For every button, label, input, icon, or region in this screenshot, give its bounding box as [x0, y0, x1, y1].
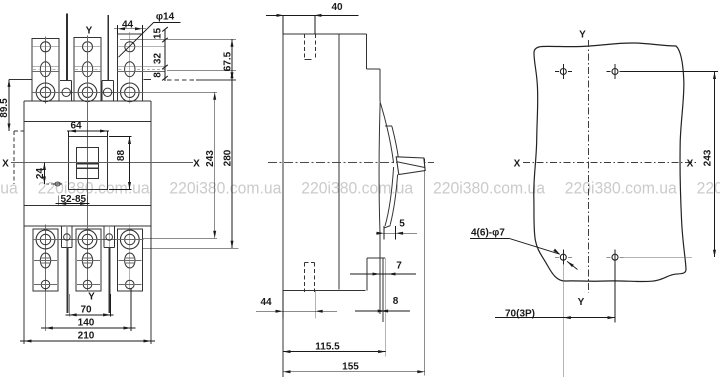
Y dash-dot axis (plate)	[588, 40, 590, 293]
top inter-pole pocket 1	[60, 80, 71, 82]
top terminal block 3	[118, 34, 143, 101]
svg-text:67.5: 67.5	[223, 51, 234, 71]
svg-text:220i380.com.ua: 220i380.com.ua	[169, 179, 281, 198]
top terminal block 2 middle slot hole	[82, 62, 92, 77]
top inter-pole pocket 1 hole	[62, 88, 70, 96]
dimension 8 (side)	[355, 310, 410, 312]
svg-text:5: 5	[399, 219, 405, 230]
dimension 88	[129, 137, 131, 190]
side view: cover face lower	[379, 101, 380, 314]
svg-text:15: 15	[153, 28, 164, 40]
dimension 44 (side)	[282, 290, 284, 318]
svg-text:4(6)-φ7: 4(6)-φ7	[471, 228, 505, 239]
side view: X dash-dot axis	[268, 162, 434, 164]
bottom-right hole extension line	[614, 264, 616, 323]
side view: bottom step horizontal	[367, 257, 385, 259]
bottom terminal block 2 main screw	[78, 230, 97, 249]
extension line from bottom-right hole	[624, 256, 693, 258]
top terminal block 3 upper hole	[125, 42, 135, 52]
bottom terminal block 3 middle slot hole	[125, 253, 135, 268]
top terminal block 2 main screw	[78, 83, 97, 102]
svg-text:220i380.com.ua: 220i380.com.ua	[0, 179, 18, 198]
side view: toggle lever	[396, 157, 425, 175]
bottom busbar phase 1	[67, 248, 69, 313]
svg-text:115.5: 115.5	[315, 342, 340, 353]
extension line from top-right hole	[624, 71, 719, 73]
front view: lower face line	[24, 205, 151, 207]
bottom inter-pole pocket 1 hole	[66, 227, 68, 248]
top terminal block 1 main screw	[36, 83, 55, 102]
side view: toggle lever inner line	[397, 162, 425, 168]
extension line top right (front)	[120, 38, 236, 40]
svg-text:220i380.com.ua: 220i380.com.ua	[697, 179, 720, 198]
mounting hole top-left	[560, 69, 566, 75]
svg-text:8: 8	[153, 72, 164, 78]
svg-text:220i380.com.ua: 220i380.com.ua	[565, 179, 677, 198]
top terminal block 1 upper hole	[41, 42, 51, 52]
bottom terminal block 3 centerline	[129, 225, 131, 292]
top terminal block 2	[74, 38, 101, 102]
dimension 7 (side)	[350, 273, 416, 275]
bottom terminal block 1 lower hole	[41, 280, 50, 289]
svg-text:220i380.com.ua: 220i380.com.ua	[433, 179, 545, 198]
svg-text:Y: Y	[86, 26, 93, 37]
svg-text:155: 155	[342, 362, 359, 373]
bottom-left hole extension line	[562, 264, 564, 377]
side view: top edge	[283, 33, 367, 35]
svg-text:220i380.com.ua: 220i380.com.ua	[38, 179, 150, 198]
dimension chain 15-32-8	[164, 29, 166, 81]
side view: bottom edge	[283, 289, 366, 291]
top terminal block 2 upper hole	[83, 42, 93, 52]
mounting hole top-right	[612, 69, 618, 75]
svg-text:64: 64	[70, 121, 82, 132]
top terminal block 2 centerline	[87, 36, 89, 104]
side view: escutcheon bottom edge	[384, 226, 391, 229]
dimension 70 (front)	[68, 294, 70, 317]
svg-text:44: 44	[260, 297, 272, 308]
bottom terminal block 3 main screw	[120, 230, 139, 249]
svg-text:X: X	[2, 159, 9, 170]
side view: escutcheon outer edge	[385, 125, 392, 127]
dimension 89.5	[8, 79, 10, 131]
mounting plate outline	[534, 43, 686, 282]
svg-text:X: X	[687, 158, 694, 169]
dimension 44 (front top)	[117, 25, 119, 34]
dimension 280 (front)	[167, 70, 236, 72]
top right body stub line	[144, 78, 152, 80]
bottom terminal block 1	[33, 229, 58, 291]
dimension 140	[44, 288, 46, 331]
bottom terminal block 1 centerline	[45, 225, 47, 292]
side view: escutcheon bulge	[380, 103, 393, 163]
dimension 155 (side)	[424, 158, 426, 375]
svg-text:243: 243	[205, 150, 216, 167]
top inter-pole pocket 2 hole	[103, 88, 111, 96]
svg-text:44: 44	[122, 20, 134, 31]
bottom terminal block 2	[76, 229, 101, 291]
top terminal row: screw axis line	[32, 91, 144, 93]
front view: body top line	[24, 100, 151, 102]
dimension 52-85	[58, 196, 60, 207]
dimension 210	[20, 340, 155, 342]
bottom inter-pole pocket 2 hole	[108, 227, 110, 248]
escutcheon frame 64x88	[69, 137, 108, 190]
top inter-pole pocket 2	[102, 80, 113, 82]
X axis line (front view)	[11, 162, 193, 164]
svg-text:210: 210	[78, 331, 95, 342]
dimension 40 (side)	[282, 15, 284, 34]
svg-text:Y: Y	[578, 297, 585, 308]
dimension 24	[43, 163, 45, 185]
front accessory marker	[55, 182, 60, 186]
top left body stub line	[9, 78, 32, 80]
front view: body right edge	[150, 101, 152, 344]
dimension 64	[67, 130, 109, 132]
dimension 115.5 (side)	[283, 351, 386, 353]
bottom inter-pole pocket 1	[60, 226, 62, 248]
bottom terminal block 2 middle slot hole	[82, 253, 92, 268]
top terminal block 1	[32, 39, 59, 102]
svg-text:φ14: φ14	[156, 11, 175, 22]
bottom inter-pole pocket 2	[103, 226, 105, 248]
side view: bottom dashed channel	[303, 263, 305, 292]
bottom terminal block 1 middle slot hole	[40, 253, 50, 268]
top terminal block 3 main screw	[121, 83, 140, 102]
bottom terminal block 2 centerline	[87, 225, 89, 292]
leader phi14	[153, 22, 180, 24]
side view: cover face upper	[379, 69, 381, 101]
bottom terminal block 3 lower hole	[126, 280, 135, 289]
svg-text:88: 88	[116, 150, 127, 162]
bottom terminal block 2 lower hole	[83, 280, 92, 289]
dimension 5 (side)	[383, 226, 385, 240]
svg-text:89.5: 89.5	[0, 98, 10, 118]
svg-text:X: X	[193, 159, 200, 170]
svg-text:24: 24	[35, 168, 46, 180]
dimension 243 (front)	[144, 91, 218, 93]
side view: step to cover	[367, 68, 381, 70]
top terminal block 3 middle slot hole	[125, 62, 135, 77]
svg-text:40: 40	[331, 2, 343, 13]
svg-text:70: 70	[80, 305, 92, 316]
side view: right wall upper	[366, 34, 368, 69]
dashed level line 8	[167, 79, 196, 81]
front view: bottom terminal shelf line	[24, 225, 151, 227]
dimension 243 (plate)	[714, 72, 716, 258]
bottom terminal row: screw axis line	[33, 239, 144, 241]
bottom terminal block 1 main screw	[36, 230, 55, 249]
bottom busbar phase 2	[108, 248, 110, 313]
front view vertical centerline	[87, 36, 89, 291]
svg-text:52-85: 52-85	[61, 194, 87, 205]
svg-text:X: X	[514, 158, 521, 169]
top terminal block 1 middle slot hole	[40, 62, 50, 77]
toggle handle	[77, 147, 99, 178]
side view: shroud front wall	[382, 258, 384, 322]
svg-text:7: 7	[396, 261, 402, 272]
top terminal block 1 centerline	[45, 37, 47, 104]
X dash-dot axis (plate)	[523, 161, 696, 163]
mounting hole bottom-right	[612, 254, 618, 260]
front view: upper face line	[24, 121, 151, 123]
side view: left edge	[282, 34, 284, 377]
top terminal block 3 centerline	[129, 32, 131, 104]
svg-text:Y: Y	[88, 292, 95, 303]
svg-text:280: 280	[223, 149, 234, 166]
bottom terminal block 3	[118, 229, 143, 291]
top busbar phase 1	[66, 14, 68, 81]
side view: top dashed channel	[304, 34, 306, 59]
front view: body left edge	[23, 101, 25, 344]
top busbar phase 2	[107, 15, 109, 80]
dashed escutcheon outline left	[14, 130, 24, 132]
mounting hole bottom-left	[560, 254, 566, 260]
svg-text:8: 8	[393, 296, 399, 307]
side view: bottom step vertical	[366, 258, 368, 290]
svg-text:Y: Y	[579, 30, 586, 41]
dimension 67.5	[231, 39, 233, 80]
svg-text:140: 140	[78, 318, 95, 329]
svg-text:32: 32	[153, 53, 164, 65]
side view: inner face line	[338, 34, 340, 290]
svg-text:243: 243	[703, 149, 714, 166]
